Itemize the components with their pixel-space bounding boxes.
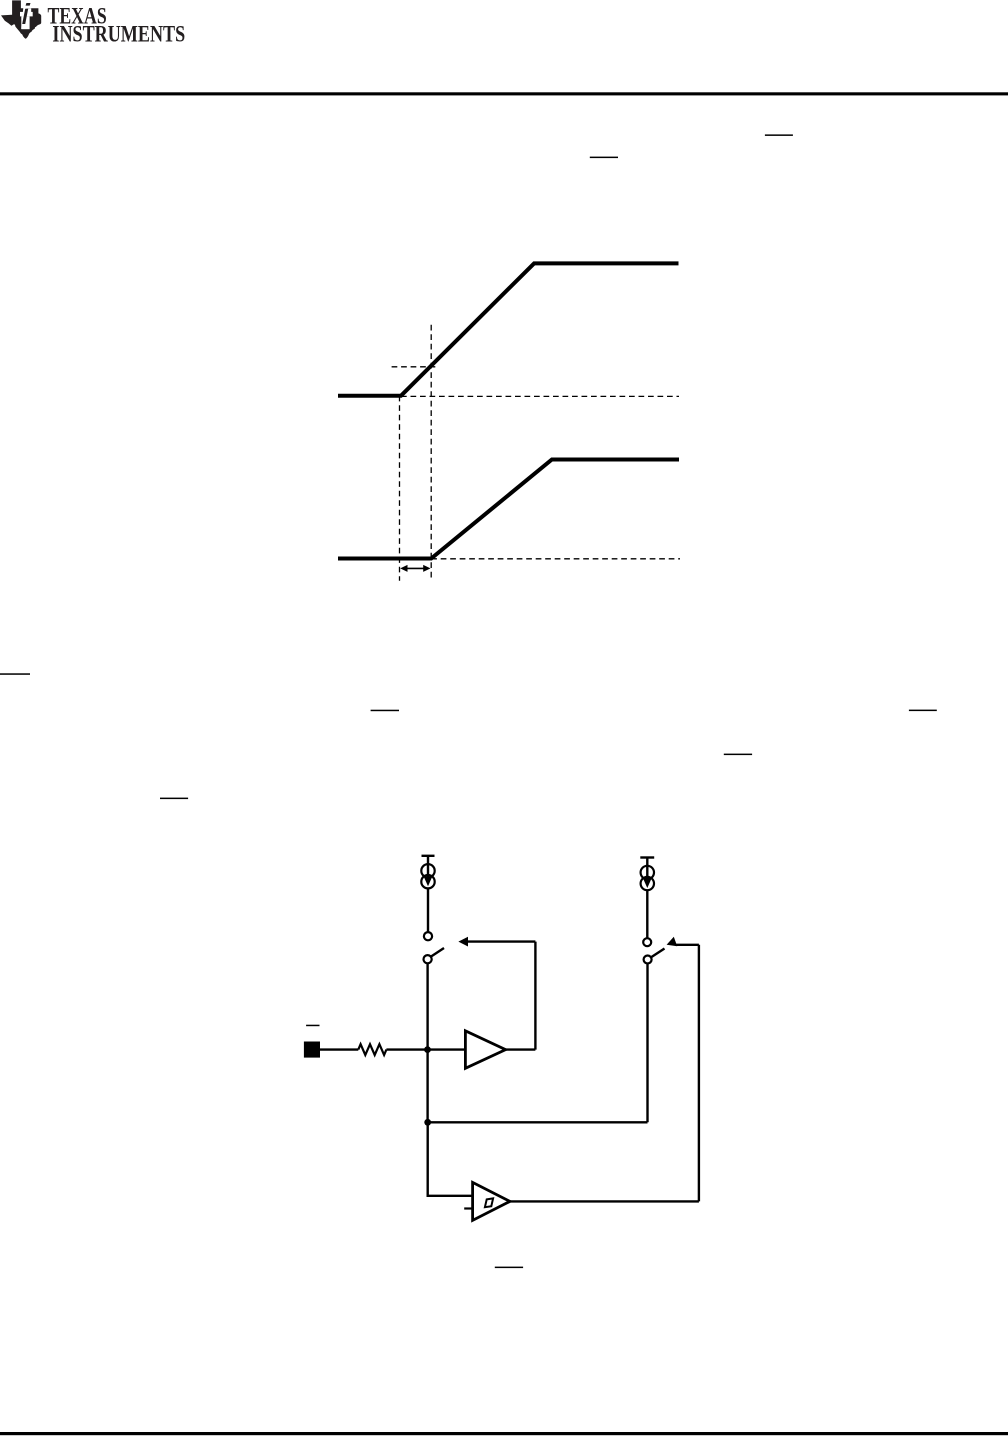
svg-text:INSTRUMENTS: INSTRUMENTS [52, 22, 185, 48]
delay measurement double arrow [400, 565, 430, 572]
wire node B to right branch [428, 1121, 648, 1123]
switch S2 bottom contact [644, 956, 652, 964]
wire input to resistor R1 [320, 1048, 358, 1050]
comparator U2 inverting input stub [464, 1207, 472, 1209]
buffer U1 [465, 1031, 505, 1069]
node A junction dot [424, 1046, 431, 1053]
current source I1 [421, 856, 434, 889]
overline E (signal name) [909, 710, 937, 712]
overline H (signal name, figure caption) [495, 1267, 523, 1269]
dashed threshold level line [392, 366, 437, 368]
overline A (signal name, paragraph 1) [765, 134, 793, 136]
feedback wire buffer output to S1 [534, 942, 536, 1050]
wire I2 to switch S2 [646, 890, 648, 938]
wire right branch to switch S2 [646, 964, 648, 1123]
current source I2 supply bar [640, 856, 654, 858]
resistor R1 [358, 1044, 386, 1055]
comparator U2 [473, 1182, 510, 1220]
dashed vertical cursor 2 [430, 325, 432, 581]
waveform top trace [338, 263, 679, 395]
switch S2 top contact [643, 938, 651, 946]
input terminal square [304, 1042, 320, 1058]
wire U2 output to S2 control [698, 945, 700, 1202]
switch S2 blade [652, 949, 665, 958]
wire I1 to switch S1 [427, 888, 429, 932]
wire node A to node B [426, 1050, 428, 1123]
wire node A to buffer U1 [428, 1048, 466, 1050]
overline F (signal name) [724, 754, 752, 756]
TI logo Texas-state bug [1, 0, 41, 38]
dashed low-level line of bottom trace [431, 558, 680, 560]
overline C (signal name, left margin) [0, 673, 30, 675]
footer rule [0, 1432, 1008, 1435]
current source I2 [641, 858, 654, 891]
switch S1 control arrow [458, 937, 535, 947]
overline I (input pin label) [306, 1025, 319, 1027]
switch S1 bottom contact [424, 955, 432, 963]
wire R1 to node A [386, 1048, 427, 1050]
wire node B to comparator U2 [428, 1122, 473, 1196]
comparator U2 hysteresis symbol [485, 1198, 493, 1207]
switch S1 top contact [424, 932, 432, 940]
wire U1 output [506, 1048, 536, 1050]
dashed vertical cursor 1 [399, 396, 401, 581]
overline G (signal name) [160, 798, 188, 800]
header rule [0, 92, 1008, 95]
overline D (signal name) [371, 710, 399, 712]
current source I1 supply bar [422, 855, 435, 857]
overline B (signal name, paragraph 1) [590, 157, 618, 159]
switch S1 blade [431, 948, 444, 957]
waveform bottom trace [338, 460, 679, 559]
wire U2 output [510, 1200, 699, 1202]
node B junction dot [424, 1119, 431, 1126]
dashed low-level line of top trace [401, 395, 679, 397]
switch S2 control arrow [667, 937, 699, 946]
wire S1 to node A [426, 963, 428, 1049]
